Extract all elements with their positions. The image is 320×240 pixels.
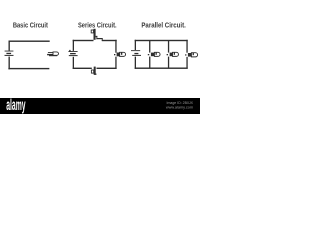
battery B3 (parallel circuit) bbox=[131, 50, 141, 56]
svg-text:Basic Circuit: Basic Circuit bbox=[13, 22, 49, 30]
lamp L6 (parallel branch 2) bbox=[167, 52, 179, 56]
svg-text:Series Circuit.: Series Circuit. bbox=[78, 22, 117, 30]
wire: basic circuit bottom line bbox=[8, 68, 49, 69]
lamp L5 (parallel branch 1) bbox=[148, 52, 160, 56]
wire: series circuit top line left segment bbox=[73, 40, 94, 41]
wire: series circuit left wire lower segment bbox=[73, 57, 74, 69]
lamp L1 (basic circuit right) bbox=[47, 52, 58, 56]
svg-text:alamy: alamy bbox=[6, 96, 26, 114]
lamp L3 (series circuit right) bbox=[114, 52, 126, 56]
wire: series circuit right wire upper segment bbox=[115, 40, 116, 53]
wire: series circuit left wire upper segment bbox=[73, 40, 74, 51]
svg-text:www.alamy.com: www.alamy.com bbox=[166, 105, 193, 109]
wire: basic circuit left wire upper segment bbox=[9, 41, 10, 51]
battery B1 (basic circuit) bbox=[5, 51, 14, 56]
wire: series circuit right wire lower segment bbox=[115, 57, 116, 69]
wire: series circuit bottom line left segment bbox=[73, 68, 92, 69]
wire: parallel circuit left wire upper segment bbox=[135, 40, 136, 50]
wire: parallel circuit left wire lower segment bbox=[135, 57, 136, 69]
wire: series circuit top line step segments bbox=[96, 36, 117, 41]
wire: parallel circuit top line bbox=[135, 40, 188, 41]
alamy watermark bar bbox=[0, 98, 200, 114]
lamp L4 (series circuit bottom) bbox=[91, 67, 96, 75]
wire: parallel branch 2 upper segment bbox=[168, 40, 169, 52]
wire: parallel branch 1 lower segment bbox=[149, 57, 150, 69]
wire: series circuit bottom line right segment bbox=[97, 68, 117, 69]
lamp L2 (series circuit top) bbox=[91, 29, 95, 40]
wire: parallel right wire upper segment bbox=[186, 40, 187, 53]
svg-text:Parallel Circuit.: Parallel Circuit. bbox=[141, 22, 186, 30]
wire: basic circuit left wire lower segment bbox=[9, 57, 10, 70]
wire: parallel branch 1 upper segment bbox=[149, 40, 150, 52]
wire: parallel right wire lower segment bbox=[186, 57, 187, 69]
wire: basic circuit top line bbox=[9, 41, 50, 42]
lamp L7 (parallel right) bbox=[185, 53, 198, 57]
wire: parallel branch 2 lower segment bbox=[168, 57, 169, 69]
battery B2 (series circuit) bbox=[68, 50, 77, 56]
wire: parallel circuit bottom line bbox=[135, 68, 188, 69]
